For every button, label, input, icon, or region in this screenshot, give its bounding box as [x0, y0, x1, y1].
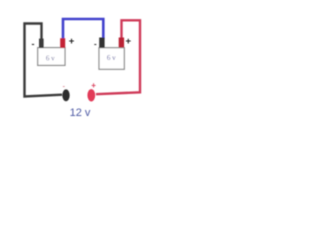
battery BT1 positive terminal post: [60, 38, 65, 48]
wire: black lead from battery BT1 negative terminal to negative output connector: [25, 24, 63, 97]
svg-text:-: -: [94, 40, 97, 49]
svg-text:6 v: 6 v: [46, 54, 55, 62]
negative output connector lug: [62, 89, 69, 101]
svg-text:+: +: [126, 36, 132, 47]
battery BT1 negative terminal post: [39, 39, 44, 48]
svg-text:12 v: 12 v: [70, 107, 91, 119]
battery BT1 (6 V) body: [38, 48, 65, 66]
battery BT2 (6 V) body: [99, 48, 124, 70]
svg-text:-: -: [32, 39, 35, 49]
svg-text:6 v: 6 v: [107, 54, 116, 62]
wire: blue jumper from battery BT1 positive terminal to battery BT2 negative terminal: [63, 19, 103, 39]
battery BT2 positive terminal post: [119, 38, 124, 48]
svg-text:+: +: [69, 36, 75, 47]
svg-text:+: +: [91, 81, 96, 90]
wire: red lead from battery BT2 positive terminal to positive output connector: [96, 20, 140, 94]
battery BT2 negative terminal post: [99, 38, 104, 48]
positive output connector lug: [87, 89, 95, 101]
